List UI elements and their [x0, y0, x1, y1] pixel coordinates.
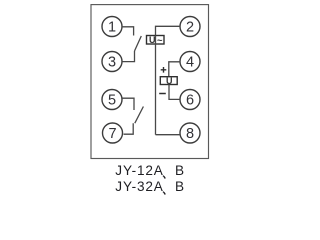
wire terminal7 to contact K2 pivot [124, 123, 134, 134]
svg-text:3: 3 [108, 55, 116, 71]
terminal 4 [180, 52, 200, 72]
svg-text:2: 2 [186, 20, 194, 36]
svg-text:JY-12A: JY-12A [115, 163, 164, 178]
wire terminal2 to AC coil [156, 26, 181, 35]
wire terminal1 to upper fixed contact [122, 27, 134, 36]
terminal 5 [102, 90, 122, 110]
terminal 2 [180, 17, 200, 37]
terminal 8 [180, 123, 200, 143]
svg-text:JY-32A: JY-32A [115, 179, 164, 194]
svg-text:U: U [149, 35, 156, 45]
relay case outline [91, 5, 209, 159]
svg-text:~: ~ [157, 36, 163, 47]
AC coil box U~ [147, 36, 165, 45]
svg-text:1: 1 [108, 20, 116, 36]
wire terminal4 to DC coil plus [169, 62, 180, 77]
terminal 1 [102, 17, 122, 37]
svg-text:5: 5 [108, 93, 116, 109]
wire through AC coil down to terminal8 net [155, 36, 157, 135]
svg-text:4: 4 [186, 55, 194, 71]
DC coil box U [160, 77, 177, 85]
model label line 1: JY-12A、B [115, 163, 184, 179]
wire terminal5 to upper fixed contact [122, 98, 134, 110]
contact K1 blade (1-3) [135, 36, 142, 51]
terminal 6 [180, 90, 200, 110]
plus polarity mark [161, 67, 167, 73]
model label line 2: JY-32A、B [115, 179, 184, 195]
contact K2 blade (5-7) [135, 107, 144, 124]
minus polarity mark [159, 93, 166, 95]
svg-text:B: B [175, 179, 184, 194]
wire terminal6 to DC coil minus [169, 85, 180, 100]
terminal 3 [102, 52, 122, 72]
wire terminal3 to contact K1 pivot [122, 51, 134, 62]
svg-text:8: 8 [186, 126, 194, 142]
terminal 7 [103, 123, 123, 143]
wire junction to terminal 8 [156, 134, 181, 136]
svg-text:B: B [175, 163, 184, 178]
svg-text:6: 6 [186, 93, 194, 109]
svg-text:7: 7 [108, 126, 116, 142]
